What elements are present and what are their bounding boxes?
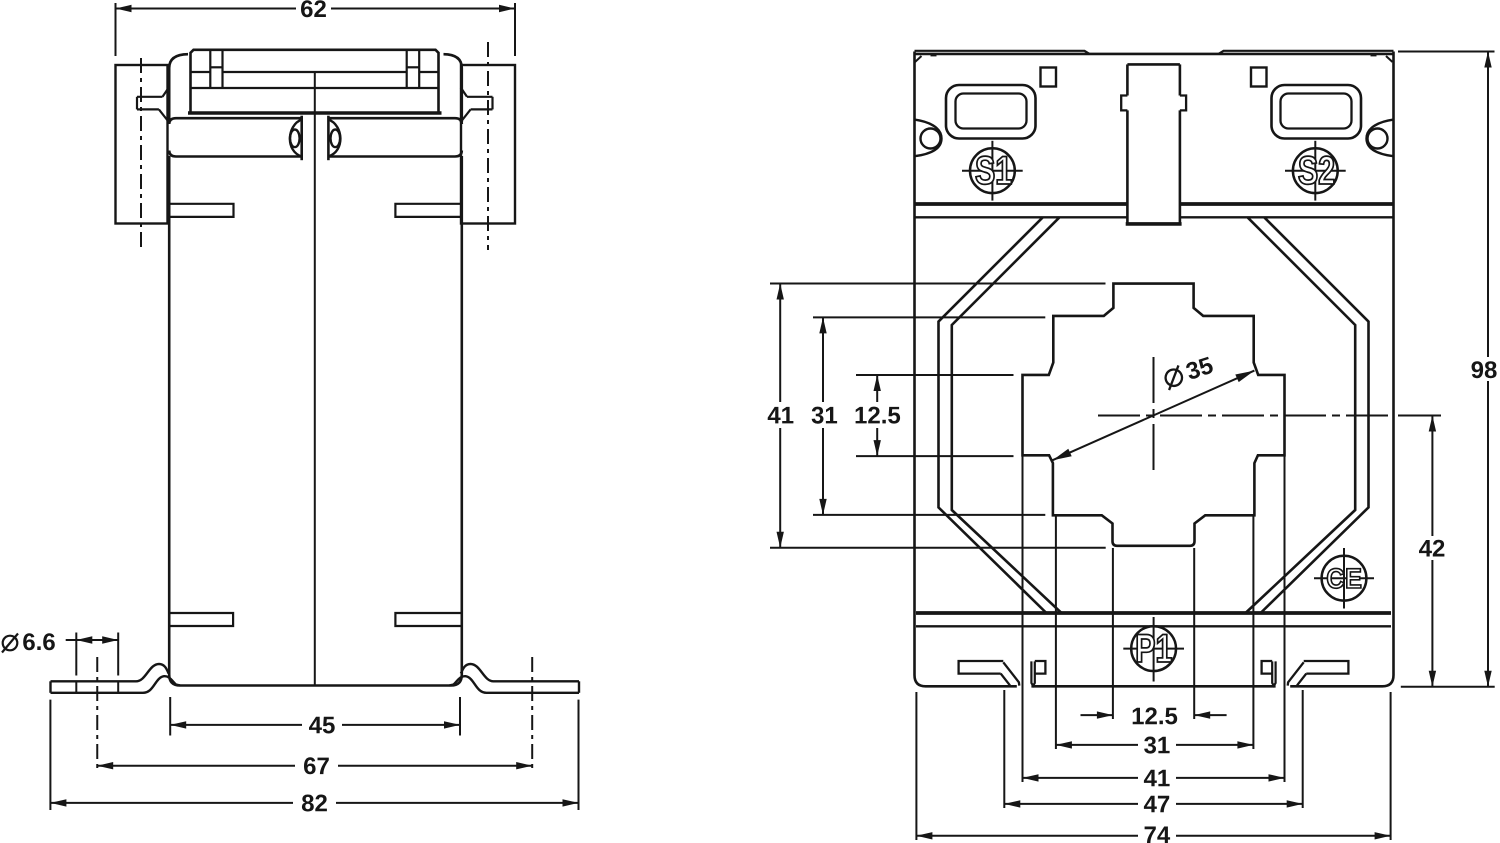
- left foot end cap: [49, 681, 51, 693]
- latch right vertical: [327, 116, 330, 161]
- body bottom: [180, 684, 451, 687]
- S2 label: [1299, 156, 1317, 184]
- dim 62 label: [301, 0, 313, 17]
- central tab right nub: [1180, 96, 1186, 111]
- dim 67 arrows: [97, 762, 113, 769]
- left hole centerline: [96, 657, 98, 772]
- dim 6.6 label: [23, 633, 35, 650]
- cap line y88: [191, 87, 439, 89]
- dim 82 line: [50, 802, 293, 804]
- dim 41B arrows: [1023, 774, 1039, 781]
- lower notch left: [170, 613, 233, 626]
- left window inner: [956, 94, 1027, 129]
- dim 31L line: [822, 317, 824, 402]
- CE crosshair: [1343, 548, 1345, 609]
- hole centerline horizontal: [1098, 415, 1390, 417]
- S1 crosshair: [991, 141, 993, 201]
- body right side: [451, 156, 462, 686]
- dim 45 label: [309, 717, 322, 734]
- dim 12.5L label: [856, 407, 867, 424]
- central tab left nub: [1121, 96, 1127, 111]
- dim 67 label: [304, 757, 316, 774]
- housing right edge: [1383, 52, 1394, 687]
- cap screw notch right: [406, 50, 408, 88]
- CE letters: [1327, 568, 1344, 588]
- lower notch right: [395, 613, 460, 626]
- dim 98 line: [1487, 52, 1489, 358]
- dim 45 line: [170, 724, 302, 726]
- housing top lip left: [915, 51, 1090, 54]
- body left shoulder: [169, 54, 188, 122]
- left foot notch: [1035, 661, 1046, 674]
- octagon outer right: [1261, 217, 1369, 613]
- P1 crosshair: [1153, 617, 1155, 682]
- latch left vertical: [300, 116, 303, 161]
- right window inner: [1281, 94, 1352, 129]
- dim 31L ext top: [813, 316, 1045, 318]
- dim 42 ext top: [1398, 415, 1441, 417]
- dim 82 ext lines: [49, 700, 51, 810]
- dim 67 line: [97, 765, 295, 767]
- left foot top edge: [51, 664, 169, 681]
- dim 12.5B ext lines: [1112, 548, 1114, 719]
- housing corner tick left: [915, 56, 922, 62]
- dim 6.6 ext lines: [75, 633, 77, 676]
- left vent square: [1041, 68, 1057, 87]
- latch left oval: [290, 130, 300, 148]
- left foot bottom edge: [51, 676, 181, 693]
- S1 label: [976, 156, 994, 184]
- octagon inner right: [1246, 217, 1356, 613]
- dim 41L arrows: [777, 284, 784, 300]
- dim phi35 line: [1053, 371, 1255, 461]
- right foot end cap: [578, 681, 580, 693]
- left foot slit: [1031, 661, 1034, 685]
- S1 circle: [970, 148, 1015, 193]
- flange band bottom: [169, 151, 302, 157]
- housing top edge: [915, 53, 1394, 56]
- upper band line 2: [915, 216, 1128, 218]
- central tab sides: [1126, 64, 1129, 95]
- central tab: [1127, 63, 1180, 66]
- body right shoulder: [444, 54, 462, 122]
- stepped cross opening: [1023, 284, 1285, 546]
- left plate: [116, 65, 168, 224]
- dim 45 arrows: [170, 721, 186, 728]
- right ear: [1367, 120, 1394, 157]
- dim 6.6 line: [66, 639, 119, 641]
- latch right arc: [328, 120, 340, 157]
- right foot hook: [1288, 662, 1307, 685]
- dim 31B arrows: [1056, 741, 1072, 748]
- upper band line 1: [915, 202, 1128, 206]
- left window outer: [946, 85, 1036, 139]
- dim 12.5L ext bottom: [856, 455, 1014, 457]
- right clip bar: [467, 96, 493, 98]
- dim 62 line: [116, 8, 297, 10]
- dim 12.5L arrows: [874, 375, 881, 391]
- dim 12.5B label: [1133, 708, 1144, 725]
- dim 41B line: [1023, 777, 1139, 779]
- left plate centerline: [140, 58, 142, 248]
- right foot top edge: [461, 664, 579, 681]
- housing top lip right: [1219, 51, 1394, 54]
- right hole centerline: [531, 657, 533, 772]
- left foot slot: [959, 661, 1004, 674]
- dim phi35 arrows: [1053, 449, 1072, 461]
- right foot bottom edge: [450, 676, 580, 693]
- right foot slit: [1272, 661, 1275, 685]
- right foot notch: [1262, 661, 1273, 674]
- dim 42 arrows: [1429, 416, 1436, 432]
- dim 62 arrows: [116, 5, 132, 12]
- left clip bar: [137, 96, 163, 98]
- upper notch right: [395, 204, 460, 217]
- dim 31L arrows: [819, 317, 826, 333]
- cap screw notch left: [209, 50, 211, 88]
- dim 6.6 diameter symbol: [3, 636, 18, 651]
- dim 41B ext lines: [1022, 455, 1024, 782]
- dim 12.5L line: [876, 375, 878, 402]
- dim 41L ext bottom: [770, 547, 1106, 549]
- left ear hole: [921, 129, 941, 149]
- dim 31L label: [812, 407, 824, 424]
- lower band line 1: [916, 611, 1391, 615]
- CE circle: [1322, 556, 1367, 601]
- dim 98 arrows: [1484, 52, 1491, 68]
- housing left edge: [915, 52, 926, 687]
- dim 74B ext lines: [915, 692, 917, 840]
- upper notch left: [170, 204, 234, 217]
- octagon inner left: [952, 217, 1062, 613]
- right vent square: [1251, 68, 1267, 87]
- dim 98 ext top: [1398, 51, 1495, 53]
- right foot slot: [1304, 661, 1349, 674]
- flange band top: [169, 118, 302, 124]
- dim 31L ext bottom: [813, 514, 1045, 516]
- octagon outer left: [939, 217, 1047, 613]
- dim 74B line: [916, 835, 1138, 837]
- body left side: [169, 156, 180, 686]
- dim 41L ext top: [770, 283, 1106, 285]
- latch right oval: [331, 130, 341, 148]
- dim 74B label: [1145, 827, 1156, 843]
- dim 6.6 arrows: [76, 636, 92, 643]
- left foot hook: [1001, 662, 1020, 685]
- dim 98 label: [1472, 361, 1484, 378]
- dim 31B label: [1144, 737, 1156, 754]
- S2 crosshair: [1314, 141, 1316, 201]
- dim 12.5B arrows: [1081, 714, 1113, 716]
- dim 47B arrows: [1004, 800, 1020, 807]
- right plate centerline: [487, 42, 489, 250]
- dim 31B line: [1056, 744, 1138, 746]
- dim phi35 diameter symbol: [1163, 365, 1185, 390]
- dim 41B label: [1144, 770, 1157, 787]
- cap bottom: [188, 111, 442, 115]
- dim 12.5L ext top: [856, 374, 1014, 376]
- dim 98-42 ext bottom: [1401, 686, 1495, 688]
- dim 47B label: [1144, 796, 1157, 813]
- dim 62 ext line right: [514, 3, 516, 56]
- dim 62 ext line left: [115, 3, 117, 56]
- cap outline: [191, 50, 439, 113]
- right plate: [461, 65, 515, 224]
- cap line y72: [191, 71, 211, 73]
- dim 42 line: [1431, 416, 1433, 537]
- dim 82 arrows: [50, 799, 66, 806]
- left foot hole edges: [75, 681, 77, 693]
- S2 circle: [1293, 148, 1338, 193]
- hole centerline vertical: [1153, 357, 1155, 472]
- dim 47B line: [1004, 803, 1138, 805]
- housing corner tick right: [1386, 56, 1393, 62]
- body center line: [314, 72, 316, 685]
- dim 31B ext lines: [1055, 515, 1057, 749]
- dim 47B ext lines: [1003, 690, 1005, 808]
- dim 82 label: [302, 795, 314, 812]
- dim 74B arrows: [916, 832, 932, 839]
- dim 45 ext lines: [169, 697, 171, 736]
- P1 circle: [1131, 626, 1176, 671]
- housing bottom edge: [926, 685, 1017, 688]
- dim 41L label: [768, 407, 781, 424]
- left ear: [915, 120, 942, 157]
- dim phi35 label: [1185, 356, 1215, 380]
- central tab bottom: [1126, 222, 1182, 226]
- latch left arc: [290, 120, 302, 157]
- P1 label: [1137, 635, 1154, 663]
- right window outer: [1272, 85, 1362, 139]
- dim 41L line: [779, 284, 781, 403]
- lower band line 2: [916, 625, 1391, 627]
- dim 42 label: [1419, 540, 1432, 557]
- right ear hole: [1368, 129, 1388, 149]
